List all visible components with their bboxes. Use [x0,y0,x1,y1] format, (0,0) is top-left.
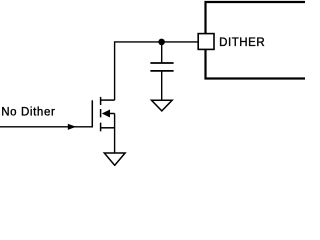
svg-text:No Dither: No Dither [1,106,55,118]
signal arrow [68,124,76,130]
wire: junction to drain [115,42,162,100]
wire: gate lead [0,126,92,128]
ground (source) [104,153,125,165]
capacitor C1 [150,63,173,71]
wire: junction to capacitor [161,42,163,63]
body stub [110,113,115,115]
channel segment (drain) [100,97,102,105]
pin DITHER [198,34,214,50]
ground (capacitor) [152,100,173,111]
wire: capacitor to ground [161,71,163,100]
drain stub [101,99,115,101]
wire: junction to DITHER pin [162,41,199,43]
IC U1 outline [206,2,306,79]
wire: source lead to ground [114,114,116,154]
body diode arrow [102,110,110,118]
source stub [101,127,115,129]
channel segment (source) [100,123,102,132]
junction dot [158,39,165,46]
gate bar [91,100,93,127]
svg-text:DITHER: DITHER [219,37,265,49]
transistor Q1 (N-MOSFET) [92,97,114,131]
channel segment (body) [100,109,102,117]
